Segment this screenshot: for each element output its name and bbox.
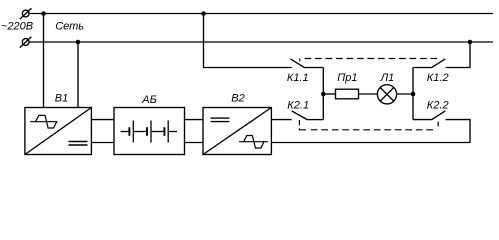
mechanical link dashed K2.1-K2.2	[299, 120, 438, 130]
svg-text:К2.1: К2.1	[287, 100, 309, 112]
contact K1.1 (NO)	[291, 59, 324, 68]
wire from node C down to B1	[77, 42, 79, 108]
wire B1 to AB bottom	[91, 142, 114, 144]
wire fuse to lamp	[359, 93, 378, 95]
wire lamp to node F	[396, 93, 413, 95]
svg-text:В1: В1	[55, 93, 68, 105]
battery cells	[121, 121, 178, 143]
inverter B2 diagonal	[203, 108, 271, 155]
node E (left junction)	[321, 92, 326, 97]
wire node F up to K1.2 and down to K2.2	[412, 68, 414, 120]
rectifier U1 (B1) box	[25, 108, 92, 155]
wire neutral y=42	[29, 41, 493, 43]
wire K2.1 up to node E	[322, 94, 324, 120]
mechanical link dashed K1.1-K1.2	[300, 59, 437, 62]
svg-text:Сеть: Сеть	[55, 20, 84, 32]
svg-text:~220В: ~220В	[1, 20, 33, 32]
battery GB1 (АБ) box	[114, 108, 185, 155]
node F (right junction)	[411, 92, 416, 97]
rectifier B1 DC symbol =	[69, 142, 88, 146]
wire AB to B2 bottom	[185, 142, 204, 144]
terminal X2 (bottom, ~220V neutral)	[20, 37, 32, 48]
wire from node A down to B1	[43, 14, 45, 108]
node B (top wire to K1.1)	[201, 11, 206, 16]
svg-text:В2: В2	[231, 93, 244, 105]
terminal X1 (top, ~220V phase)	[20, 8, 32, 19]
wire AB to B2 top	[185, 119, 204, 121]
lamp Л1	[377, 85, 396, 104]
svg-text:АБ: АБ	[141, 94, 157, 106]
wire from node D down and left to K1.2	[446, 42, 470, 68]
svg-text:К1.1: К1.1	[287, 72, 309, 84]
rectifier B1 AC sine symbol	[30, 115, 57, 128]
rectifier B1 diagonal	[25, 108, 92, 155]
svg-text:Л1: Л1	[380, 72, 395, 84]
svg-text:К1.2: К1.2	[427, 72, 449, 84]
wire K1.1 down to node E	[322, 68, 324, 95]
inverter U2 (B2) box	[203, 108, 271, 155]
contact K2.2 (NO, mirrored)	[413, 111, 445, 120]
wire B2 to K2.1	[271, 119, 291, 121]
inverter B2 AC sine symbol	[239, 136, 268, 149]
wire K2.2 right side down to bottom return	[271, 120, 470, 143]
node D (neutral to K1.2)	[468, 40, 473, 45]
svg-text:Пр1: Пр1	[337, 72, 357, 84]
node C (neutral to B1)	[76, 40, 81, 45]
svg-text:К2.2: К2.2	[427, 100, 449, 112]
wire top phase y=13.5	[29, 13, 493, 15]
wire node E to fuse	[323, 93, 335, 95]
node A (top wire to B1)	[41, 11, 46, 16]
wire B1 to AB top	[91, 119, 114, 121]
inverter B2 DC symbol =	[211, 118, 230, 122]
contact K1.2 (NO, mirrored)	[413, 59, 445, 68]
contact K2.1 (NO)	[292, 111, 324, 120]
fuse Пр1 body	[336, 89, 359, 99]
wire from node B down and right to K1.1	[204, 14, 292, 68]
